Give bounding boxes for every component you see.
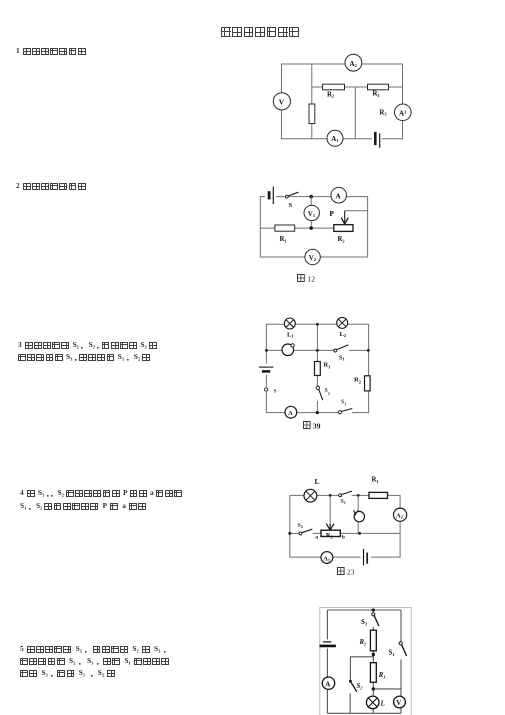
resistor R1 vertical <box>315 362 331 376</box>
wire outer loop <box>260 197 367 257</box>
battery <box>372 132 382 148</box>
node top junction <box>372 608 375 611</box>
caption 图12 <box>298 275 316 284</box>
svg-text:S2: S2 <box>298 523 303 529</box>
resistor R1 <box>369 477 388 499</box>
meter G <box>282 344 294 356</box>
ammeter A2 <box>345 54 362 71</box>
caption 图39 <box>304 422 321 431</box>
problem 3 text line 1 <box>18 342 158 351</box>
svg-text:L: L <box>380 700 385 708</box>
scan frame border <box>320 608 412 715</box>
switch S3 <box>338 400 352 414</box>
node top junction <box>316 323 319 326</box>
resistor R2 vertical <box>359 630 377 651</box>
node row2 mid junction <box>316 349 319 352</box>
problem 1 text <box>16 48 87 55</box>
problem 2 text <box>16 183 87 190</box>
resistor R2 vertical <box>354 376 370 391</box>
switch S3 <box>361 613 379 627</box>
resistor vertical on inner branch <box>309 104 315 124</box>
problem 5 text line 2 <box>20 658 171 667</box>
lamp L1 <box>284 318 295 339</box>
svg-text:A1: A1 <box>323 555 330 562</box>
svg-text:39: 39 <box>313 422 321 431</box>
switch S2 <box>349 680 363 692</box>
svg-text:S1: S1 <box>389 650 395 658</box>
voltmeter V <box>394 696 406 708</box>
wiper arrow P <box>330 210 368 224</box>
svg-text:12: 12 <box>308 275 316 284</box>
rheostat R2 <box>334 225 353 244</box>
wire outer loop <box>266 324 368 412</box>
svg-text:A: A <box>325 680 330 688</box>
circuit 1 figure <box>265 45 415 155</box>
title 等效电路训练题 <box>221 27 301 37</box>
svg-text:V: V <box>353 509 359 518</box>
node V top junction <box>357 494 360 497</box>
circuit 4 figure <box>275 460 425 580</box>
svg-text:S3: S3 <box>341 400 346 407</box>
wire middle branch <box>373 610 400 713</box>
switch S2 <box>316 386 330 400</box>
svg-text:V: V <box>279 98 285 107</box>
node below R1 <box>372 687 375 690</box>
wire middle horizontal <box>290 532 400 534</box>
battery <box>320 640 336 649</box>
svg-text:S2: S2 <box>357 683 364 691</box>
wire S2 branch <box>350 657 373 714</box>
ammeter A3 <box>395 104 412 121</box>
svg-text:R1: R1 <box>378 672 386 680</box>
lamp L2 <box>337 317 348 338</box>
wire inner vertical branch <box>311 64 313 139</box>
svg-text:23: 23 <box>347 568 355 577</box>
svg-text:R2: R2 <box>327 92 334 99</box>
problem 4 text line 1 <box>20 490 183 499</box>
wire middle vertical <box>316 324 318 412</box>
svg-text:S3: S3 <box>361 619 368 627</box>
wire outer loop <box>282 64 403 139</box>
svg-text:a: a <box>315 534 318 540</box>
svg-text:R3: R3 <box>380 110 388 117</box>
svg-text:R2: R2 <box>354 377 361 385</box>
ammeter A <box>331 187 347 203</box>
wire voltmeter branch <box>357 495 359 533</box>
wire row2 horizontal <box>266 349 368 351</box>
caption 图23 <box>338 568 355 577</box>
resistor R2 <box>323 84 345 98</box>
svg-text:A: A <box>288 410 293 417</box>
node wiper junction <box>329 494 332 497</box>
svg-text:L1: L1 <box>287 332 294 339</box>
problem 5 text line 3 <box>20 670 116 679</box>
svg-text:L: L <box>315 477 320 486</box>
wire outer loop <box>290 495 400 557</box>
wiper arrow to R2 <box>326 495 334 530</box>
rheostat R2 <box>315 530 345 540</box>
svg-text:S2: S2 <box>325 388 330 396</box>
wire middle horizontal <box>312 86 403 88</box>
node left middle junction <box>288 532 291 535</box>
problem 3 text line 2 <box>18 354 151 363</box>
node row2 left junction <box>265 349 268 352</box>
switch S1 <box>334 345 349 362</box>
svg-text:R2: R2 <box>359 639 368 647</box>
node junction top <box>309 195 313 199</box>
ammeter A <box>322 677 334 689</box>
svg-text:S: S <box>289 202 293 209</box>
ammeter A1 <box>327 130 343 146</box>
svg-text:A: A <box>336 192 342 200</box>
svg-text:S: S <box>274 389 277 395</box>
circuit 3 figure <box>253 305 395 435</box>
wire voltmeter V1 branch <box>310 197 312 229</box>
ammeter A2 <box>394 508 407 521</box>
voltmeter V1 <box>304 205 319 220</box>
svg-text:P: P <box>330 210 335 218</box>
svg-text:A2: A2 <box>396 513 403 520</box>
voltmeter V <box>353 509 365 522</box>
node V bottom junction <box>358 532 361 535</box>
switch S1 <box>339 491 352 505</box>
wire outer <box>327 610 401 713</box>
circuit 2 figure <box>250 183 380 288</box>
svg-text:V: V <box>396 699 401 707</box>
problem 4 text line 2 <box>20 503 147 512</box>
battery <box>259 364 274 375</box>
wire middle horizontal <box>260 227 334 229</box>
voltmeter V <box>273 93 290 110</box>
svg-text:L2: L2 <box>340 331 347 338</box>
svg-text:R1: R1 <box>372 477 379 485</box>
battery <box>265 187 276 205</box>
lamp L <box>366 696 384 709</box>
node junction middle <box>309 226 313 230</box>
battery <box>361 549 372 565</box>
ammeter A <box>285 406 297 418</box>
svg-text:R1: R1 <box>373 91 380 99</box>
svg-text:S1: S1 <box>341 499 346 505</box>
wire center vertical <box>354 87 356 139</box>
switch S1 <box>389 642 407 657</box>
circuit 5 figure <box>305 598 420 715</box>
ammeter A1 <box>321 552 333 564</box>
lamp L <box>304 477 320 502</box>
switch S <box>285 192 300 210</box>
label R3 <box>380 110 388 117</box>
problem 5 text line 1 <box>20 646 168 655</box>
svg-text:R2: R2 <box>338 236 345 244</box>
resistor R1 vertical <box>370 663 385 683</box>
voltmeter V2 <box>305 249 320 264</box>
svg-text:b: b <box>342 534 345 540</box>
node row2 right junction <box>367 349 370 352</box>
svg-text:R1: R1 <box>280 236 287 244</box>
resistor R1 <box>275 225 295 244</box>
svg-text:S1: S1 <box>339 355 345 362</box>
node between R2 R1 <box>372 653 375 656</box>
switch S2 <box>298 523 313 535</box>
resistor R1 <box>368 84 389 98</box>
switch contact on battery branch <box>264 387 277 395</box>
node bottom junction <box>316 411 319 414</box>
svg-text:R1: R1 <box>324 362 331 370</box>
